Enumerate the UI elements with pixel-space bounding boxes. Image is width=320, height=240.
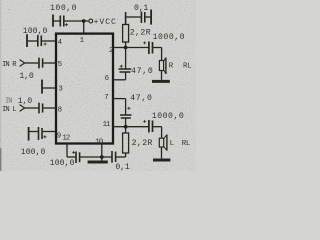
speaker LS1 <box>159 58 166 80</box>
wire pin 10 drop <box>101 144 103 158</box>
wire drop to LS2 <box>161 127 163 139</box>
svg-text:RL: RL <box>182 140 190 148</box>
svg-text:IN: IN <box>5 98 12 106</box>
svg-text:IN L: IN L <box>2 106 16 114</box>
svg-text:6: 6 <box>105 75 109 83</box>
wire bottom rail mid <box>80 156 111 158</box>
speaker LS2 <box>159 135 167 159</box>
svg-text:+VCC: +VCC <box>94 18 117 27</box>
svg-text:.: . <box>4 25 8 32</box>
capacitor C3 1,0 (IN R) <box>25 58 56 69</box>
wire VCC rail <box>64 20 88 22</box>
wire pin 2 node to C12 <box>126 47 149 49</box>
svg-text:L: L <box>170 140 174 148</box>
capacitor C10 47,0 (lower bootstrap) <box>113 99 132 125</box>
svg-text:0,1: 0,1 <box>134 4 148 13</box>
wire pin 11 <box>113 126 126 128</box>
capacitor C5 100,0 (bottom) <box>72 151 79 163</box>
capacitor C2 100,0 (pin 4) <box>27 34 56 47</box>
input IN R terminal <box>20 60 25 67</box>
capacitor C9 1,0 (IN L) <box>25 103 56 114</box>
svg-text:1,0: 1,0 <box>19 72 33 81</box>
svg-text:2,2R: 2,2R <box>132 139 153 148</box>
svg-text:7: 7 <box>104 94 108 102</box>
ground (below LS2) <box>153 159 170 162</box>
svg-text:47,0: 47,0 <box>131 67 153 76</box>
ground (below LS1) <box>152 80 170 83</box>
svg-text:10: 10 <box>95 138 102 146</box>
svg-text:1000,0: 1000,0 <box>152 112 184 121</box>
capacitor C12 1000,0 (right channel out) <box>143 41 161 54</box>
wire pin 2 <box>113 47 126 49</box>
input IN L terminal <box>20 105 25 112</box>
capacitor C8 1000,0 (left channel out) <box>143 120 161 133</box>
resistor R1 2,2R (upper) <box>123 12 129 48</box>
svg-text:2,2R: 2,2R <box>130 29 151 38</box>
svg-text:2: 2 <box>109 47 113 55</box>
wire pin1 drop to VCC rail <box>83 21 85 34</box>
ground (bottom center) <box>88 157 108 162</box>
svg-text:3: 3 <box>58 86 62 94</box>
svg-text:9: 9 <box>57 132 61 140</box>
terminal +VCC <box>89 19 93 23</box>
capacitor C6 0,1 (bottom) <box>112 151 126 163</box>
node VCC junction <box>82 19 86 23</box>
svg-text:RL: RL <box>183 62 191 70</box>
node pin 11 junction <box>124 125 128 129</box>
svg-text:1: 1 <box>80 37 85 45</box>
svg-text:.: . <box>8 5 12 12</box>
IC U1 body <box>56 34 113 144</box>
scan edge artifact <box>0 0 1 171</box>
node pin 3 stub bar <box>42 80 56 94</box>
wire drop to LS1 <box>161 48 163 61</box>
resistor R2 2,2R (lower) <box>123 128 129 153</box>
scan ghost marks <box>3 5 12 106</box>
capacitor C7 0,1 (upper) <box>126 10 152 25</box>
wire bottom rail left <box>67 156 75 158</box>
capacitor C4 100,0 (pin 9) <box>29 127 56 141</box>
svg-text:8: 8 <box>58 106 62 114</box>
svg-text:4: 4 <box>58 39 63 47</box>
svg-text:47,0: 47,0 <box>130 94 152 103</box>
node pin 10 junction <box>100 155 104 159</box>
wire pin 11 node to C8 <box>126 126 149 128</box>
svg-text:100,0: 100,0 <box>50 4 77 13</box>
capacitor C1 100,0 (VCC decoupling) <box>53 15 68 27</box>
paper background <box>0 0 196 171</box>
svg-text:12: 12 <box>62 135 69 143</box>
svg-text:100,0: 100,0 <box>50 159 75 168</box>
svg-text:1,0: 1,0 <box>18 97 32 106</box>
capacitor C11 47,0 (upper bootstrap) <box>113 48 132 80</box>
svg-text:.: . <box>3 85 7 92</box>
svg-text:0,1: 0,1 <box>115 163 129 171</box>
svg-text:100,0: 100,0 <box>23 27 48 36</box>
wire pin 12 drop <box>66 144 68 158</box>
svg-text:5: 5 <box>58 61 62 69</box>
svg-text:1000,0: 1000,0 <box>153 33 185 42</box>
svg-text:100,0: 100,0 <box>21 148 46 157</box>
svg-text:IN R: IN R <box>2 61 17 69</box>
node pin 2 junction <box>124 46 128 50</box>
